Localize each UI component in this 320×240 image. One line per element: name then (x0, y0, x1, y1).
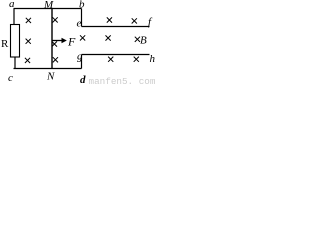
svg-text:f: f (148, 16, 153, 28)
field cross m1 middle row (80, 35, 85, 40)
svg-text:B: B (140, 35, 147, 47)
field cross m2 middle row (106, 35, 111, 40)
wire rail e-f (82, 26, 150, 28)
rod MN (51, 9, 53, 69)
resistor R box (11, 25, 20, 58)
svg-text:b: b (79, 0, 85, 11)
svg-text:manfen5. com: manfen5. com (89, 76, 156, 86)
svg-text:e: e (77, 18, 82, 30)
svg-text:N: N (46, 71, 55, 83)
field cross b2 below rail gh (134, 57, 139, 62)
svg-text:F: F (67, 35, 76, 49)
svg-text:h: h (150, 53, 156, 65)
svg-text:R: R (1, 38, 9, 50)
svg-text:a: a (9, 0, 15, 10)
field cross x4 left-loop (52, 41, 57, 46)
wire top rail a-b (14, 8, 82, 10)
wire left vertical a to resistor top (13, 9, 15, 25)
field cross r1 above rail ef (107, 17, 112, 22)
field cross x3 left-loop (26, 39, 31, 44)
force F arrow (53, 38, 67, 43)
svg-text:d: d (80, 74, 86, 86)
field cross r2 above rail ef (132, 18, 137, 23)
wire right vertical b to e (81, 9, 83, 27)
field cross x5 left-loop (25, 58, 30, 63)
wire rail g-h (82, 54, 150, 56)
field cross x2 left-loop (53, 17, 58, 22)
svg-text:c: c (8, 72, 13, 84)
wire bottom rail c-d (14, 68, 82, 70)
field cross b1 below rail gh (108, 57, 113, 62)
field cross x1 left-loop (26, 18, 31, 23)
field cross m3 middle row (135, 37, 140, 42)
field cross x6 left-loop (53, 57, 58, 62)
svg-text:M: M (43, 0, 54, 11)
svg-text:g: g (77, 51, 83, 63)
wire resistor bottom to c (14, 57, 16, 69)
wire right vertical g to d (81, 55, 83, 69)
